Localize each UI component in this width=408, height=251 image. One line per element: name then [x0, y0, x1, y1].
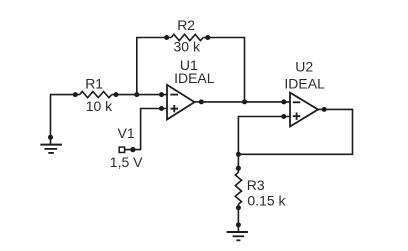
svg-text:0.15 k: 0.15 k — [247, 193, 286, 209]
U1 non-inverting pin marker — [171, 105, 179, 112]
junction U1 output pin — [199, 99, 204, 104]
junction R1 pin 1 — [73, 92, 78, 97]
op-amp U1 — [167, 85, 195, 120]
svg-text:1,5 V: 1,5 V — [110, 154, 143, 170]
svg-text:R3: R3 — [247, 177, 265, 193]
wire R3 to ground — [237, 204, 239, 232]
wire node C down to R3 — [237, 154, 239, 172]
svg-text:10 k: 10 k — [86, 98, 113, 114]
junction U1 non-inverting pin — [159, 106, 164, 111]
wire U2 output feedback loop — [238, 109, 352, 154]
junction U2 non-inverting pin — [281, 114, 286, 119]
junction R3 pin 2 — [236, 205, 241, 210]
wire R1 to U1 inverting input — [112, 94, 167, 96]
wire node A up to R2 left lead — [137, 38, 171, 95]
junction ground pin left — [48, 135, 53, 140]
source V1 terminal — [119, 147, 124, 152]
junction V1 pin — [130, 147, 135, 152]
op-amp U2 — [290, 93, 318, 127]
junction R1 pin 2 — [114, 92, 119, 97]
ground symbol left — [40, 145, 62, 153]
resistor R2 — [171, 34, 203, 40]
junction U1 inverting pin — [159, 92, 164, 97]
svg-text:IDEAL: IDEAL — [174, 70, 215, 86]
svg-text:V1: V1 — [118, 125, 135, 141]
U2 non-inverting pin marker — [293, 113, 301, 120]
U1 inverting pin marker — [170, 94, 178, 96]
junction R2 pin 1 — [164, 35, 169, 40]
junction R2 pin 2 — [205, 35, 210, 40]
junction node C — [236, 152, 241, 157]
svg-text:IDEAL: IDEAL — [284, 76, 325, 92]
resistor R3 — [235, 172, 241, 204]
wire R2 right lead down to U1 output node — [203, 38, 244, 102]
resistor R1 — [80, 92, 112, 98]
junction node B — [242, 99, 247, 104]
junction node A — [134, 92, 139, 97]
junction U2 inverting pin — [281, 99, 286, 104]
U2 inverting pin marker — [293, 101, 301, 103]
svg-text:U2: U2 — [295, 58, 313, 74]
wire U1 output to U2 inverting input — [195, 101, 291, 103]
ground symbol bottom — [227, 232, 248, 240]
junction ground pin bottom — [236, 222, 241, 227]
junction R3 pin 1 — [236, 166, 241, 171]
svg-text:30 k: 30 k — [174, 38, 201, 54]
wire input net: ground up and right to R1 — [51, 95, 80, 145]
svg-text:R2: R2 — [177, 17, 195, 33]
svg-text:R1: R1 — [85, 75, 103, 91]
wire feedback node C to U2 non-inverting input — [238, 117, 290, 155]
wire V1 to U1 non-inverting input — [125, 109, 167, 150]
junction U2 output pin — [322, 107, 327, 112]
